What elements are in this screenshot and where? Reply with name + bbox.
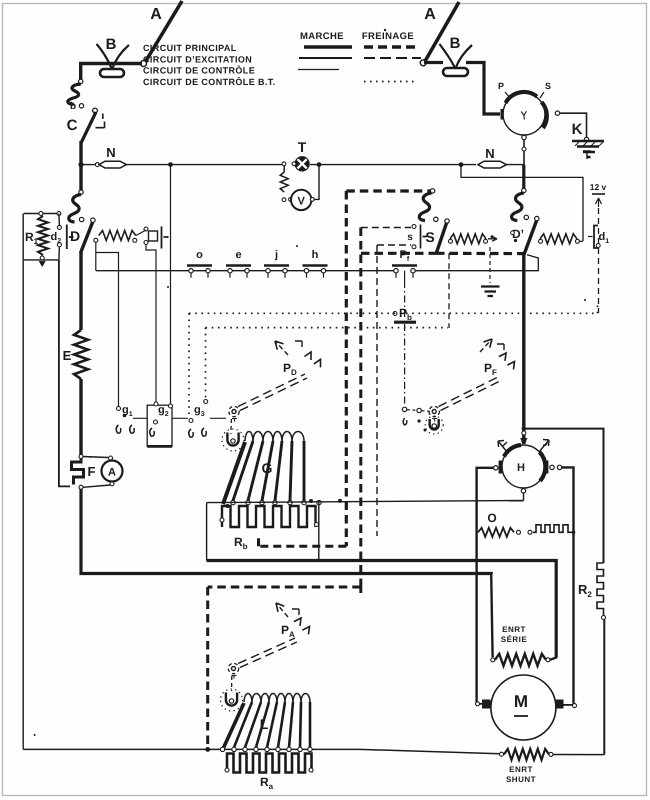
wire R2 down	[603, 619, 605, 755]
node shunt right	[549, 752, 553, 756]
node PF left a	[417, 408, 421, 412]
switch C pivot	[93, 108, 98, 113]
brake dashed feed top	[346, 189, 431, 192]
node F top	[79, 455, 83, 459]
fuse N right	[478, 161, 507, 168]
hook g1b	[130, 425, 134, 433]
earth stem	[489, 247, 491, 283]
arm PF	[439, 376, 503, 411]
wire M left stub	[477, 703, 482, 705]
svg-text:h: h	[312, 249, 319, 261]
node shunt left	[500, 752, 504, 756]
contact d2 circles	[57, 225, 61, 246]
node g3 top	[189, 419, 193, 423]
node M right	[573, 704, 577, 708]
bus D' down	[522, 253, 525, 444]
svg-text:FREINAGE: FREINAGE	[362, 31, 414, 42]
label S top	[545, 81, 551, 91]
svg-text:Ra: Ra	[260, 775, 274, 791]
node K top	[584, 137, 588, 141]
wire zigzag to d1m	[136, 230, 146, 236]
wire N row right	[507, 164, 525, 166]
arrow H right	[539, 440, 549, 453]
excitation dashed s-bot	[377, 244, 411, 246]
svg-text:L: L	[260, 716, 269, 732]
contact j	[264, 249, 289, 278]
wire B right to J	[466, 63, 500, 115]
excitation dashed s-top	[361, 227, 411, 229]
node g2 topright	[169, 404, 173, 408]
svg-text:g3: g3	[194, 404, 205, 418]
node G lead dot	[226, 504, 230, 508]
arrester B left horns	[97, 44, 130, 68]
node D res right	[133, 238, 137, 242]
label Pb	[399, 306, 412, 322]
wire A to B right	[424, 61, 443, 64]
dash link PF	[407, 410, 430, 412]
node S trip top	[430, 189, 434, 193]
label ENRT SHUNT	[506, 765, 536, 784]
label H	[517, 462, 525, 474]
label d1	[599, 231, 610, 245]
trip coil D	[69, 195, 81, 223]
dashdot Pf-Pb	[404, 281, 406, 317]
label A left	[150, 6, 162, 23]
node O mid b	[528, 530, 532, 534]
label D	[70, 228, 80, 244]
legend sample thick dashed	[364, 45, 417, 48]
node D' fixed b	[514, 239, 517, 242]
wire g1 feed	[96, 253, 119, 408]
link Pd wiper	[230, 419, 233, 434]
node serie right	[546, 658, 550, 662]
breaker J mark	[521, 111, 526, 119]
legend text CIRCUIT PRINCIPAL	[143, 43, 237, 53]
node Ra right	[309, 768, 313, 772]
label PF	[484, 361, 497, 377]
speck 1	[167, 286, 169, 288]
svg-text:ENRT: ENRT	[502, 625, 526, 634]
node F bottom	[79, 485, 83, 489]
legend sample dotted	[364, 81, 417, 83]
excitation dashed vertical x377	[376, 245, 378, 536]
label Pd	[283, 361, 297, 377]
resistor E	[74, 330, 88, 379]
legend sample thick solid	[304, 45, 352, 48]
legend sample medium dashed	[364, 57, 421, 59]
node junction A-B right	[420, 60, 426, 66]
resistor Rb comb	[222, 506, 316, 527]
machine H arcs	[504, 445, 545, 481]
wire Dres drop	[95, 243, 97, 271]
fuse N left	[99, 161, 127, 168]
node A top	[109, 456, 113, 460]
node R2 bottom	[602, 616, 606, 620]
arrow S res	[488, 235, 497, 241]
contact d2 wire top	[58, 214, 61, 227]
label d2	[51, 231, 62, 245]
node H right b	[557, 465, 561, 469]
control row wire	[96, 270, 394, 272]
node b1	[79, 79, 83, 83]
wiper G	[222, 429, 244, 451]
bt dotted horizontal 2	[206, 327, 449, 329]
switch D' pivot	[535, 216, 539, 220]
node g1 dot	[123, 414, 127, 418]
bus to D	[79, 165, 82, 191]
label g1	[122, 404, 133, 418]
brake dashed PA box top	[208, 587, 361, 593]
brake dashed PA box left	[206, 587, 209, 749]
svg-text:MARCHE: MARCHE	[300, 31, 344, 42]
node bus above H a	[522, 431, 526, 435]
wire serie left feed	[491, 574, 492, 657]
resistor R1 zigzag	[38, 216, 48, 255]
wiper PF	[425, 416, 443, 434]
label g2	[158, 404, 169, 418]
bt dotted horizontal 1	[189, 312, 598, 314]
machine H circle	[502, 445, 545, 488]
resistor S zigzag	[450, 234, 486, 244]
arrow H left	[498, 441, 508, 454]
label O	[487, 511, 496, 525]
wire H top feed	[520, 438, 528, 445]
wire H top right branch	[524, 429, 604, 563]
bus D to E	[79, 252, 82, 330]
node H left	[494, 466, 498, 470]
trip coil D' bus	[512, 193, 524, 221]
node V left b	[289, 198, 293, 202]
wire serie right feed	[550, 655, 556, 660]
svg-text:A: A	[108, 467, 116, 479]
winding ENRT SERIE	[495, 654, 546, 666]
svg-text:PF: PF	[484, 361, 497, 377]
hook Pb bottom	[403, 418, 407, 425]
svg-text:o: o	[196, 249, 203, 261]
label B left	[106, 36, 117, 53]
svg-text:SHUNT: SHUNT	[506, 775, 536, 784]
svg-text:E: E	[63, 348, 72, 363]
chevrons PA	[292, 609, 310, 634]
legend header FREINAGE	[362, 31, 414, 42]
resistor Ra comb	[227, 754, 312, 773]
wiper L	[221, 689, 243, 711]
node bus above H b	[522, 439, 526, 443]
svg-text:PD: PD	[283, 361, 297, 377]
svg-text:Pf: Pf	[400, 249, 410, 263]
arrow Pd	[275, 341, 288, 355]
legend sample medium solid	[299, 57, 352, 59]
chevrons PF	[497, 344, 515, 369]
bus E to F	[79, 379, 82, 455]
svg-text:C: C	[67, 117, 78, 134]
label F	[88, 464, 96, 479]
bt dotted right end corner	[597, 304, 599, 313]
label C	[67, 117, 78, 134]
wire J to K	[560, 113, 587, 138]
brake dashed Rb link	[259, 534, 347, 546]
svg-text:N: N	[106, 145, 115, 160]
node PF dot	[424, 429, 427, 432]
tick S	[540, 92, 544, 98]
control dashed vertical x449	[448, 253, 450, 328]
switch C blade	[82, 112, 97, 142]
speck 3	[34, 734, 36, 736]
pantograph A left	[144, 1, 182, 64]
svg-text:A: A	[150, 6, 162, 23]
node S res right	[484, 239, 488, 243]
svg-text:K: K	[572, 121, 583, 138]
ground K	[572, 141, 604, 157]
link PA wiper	[231, 676, 233, 691]
node T left b	[292, 162, 296, 166]
node b2	[79, 104, 83, 108]
label N right	[485, 146, 494, 161]
node g2 mid	[154, 420, 158, 424]
node N junction left-branch	[168, 162, 173, 167]
arrester B right horns	[440, 44, 473, 67]
contact d1m circles	[144, 227, 148, 245]
legend text CIRCUIT DE CONTROLE	[143, 65, 255, 76]
box G right	[318, 503, 320, 561]
contact o	[187, 249, 212, 278]
tick P	[505, 92, 510, 98]
node junction A-B left	[141, 61, 147, 67]
resistor R1 box bottom	[24, 259, 59, 261]
arrester B left box	[100, 69, 124, 77]
wire g3 feed	[170, 165, 172, 405]
node S res left	[449, 239, 453, 243]
switch S pivot	[445, 219, 449, 223]
machine H right brush	[545, 461, 549, 474]
wire V right up	[314, 166, 319, 199]
svg-text:P: P	[498, 81, 504, 91]
svg-text:Rb: Rb	[234, 535, 248, 551]
node M left	[476, 702, 480, 706]
tick g2-g3	[172, 417, 188, 419]
label 12v	[590, 182, 607, 192]
hook g3b	[202, 428, 206, 436]
svg-text:d1: d1	[599, 231, 610, 245]
node J right	[555, 111, 559, 115]
speck 4	[89, 456, 91, 458]
bt dotted corner 1	[188, 313, 190, 418]
contact d1 circles	[596, 244, 600, 248]
wire H bottom stem	[523, 493, 525, 501]
bus J down	[522, 165, 525, 190]
label N left	[106, 145, 115, 160]
svg-text:CIRCUIT DE CONTRÔLE B.T.: CIRCUIT DE CONTRÔLE B.T.	[143, 76, 276, 87]
node G row dot2	[338, 499, 342, 503]
coil L	[222, 694, 312, 752]
svg-text:V: V	[298, 195, 306, 207]
label E	[63, 348, 72, 363]
svg-text:F: F	[88, 464, 96, 479]
contact d2 wire bottom	[58, 247, 61, 260]
label R1	[25, 230, 39, 246]
trip coil S	[419, 193, 431, 221]
wire d2 to F	[59, 260, 70, 487]
chevrons Pd	[295, 341, 321, 367]
label Rb	[234, 535, 248, 551]
contact s bar	[421, 225, 428, 249]
wire M right stub	[564, 704, 574, 706]
svg-text:12 v: 12 v	[590, 182, 607, 192]
node PA box bottom	[205, 747, 210, 752]
resistor O zigzag	[478, 528, 514, 537]
contact e	[226, 249, 251, 278]
node PF left b	[418, 419, 421, 422]
svg-text:g2: g2	[158, 404, 169, 418]
svg-text:PA: PA	[281, 623, 295, 639]
brake dashed vertical x346	[345, 191, 348, 546]
motor M left brush	[482, 700, 491, 709]
node L lead	[220, 747, 224, 751]
node N junction right	[459, 162, 464, 167]
node D' res right	[575, 239, 583, 243]
arrester B right box	[443, 68, 468, 76]
legend text CIRCUIT D'EXCITATION	[143, 55, 252, 65]
label M	[514, 692, 528, 716]
breaker J arcs	[506, 92, 547, 128]
trip coil b left	[68, 84, 81, 104]
contact Pf	[392, 249, 417, 278]
svg-text:CIRCUIT DE CONTRÔLE: CIRCUIT DE CONTRÔLE	[143, 65, 255, 76]
node J bottom	[522, 135, 526, 139]
svg-text:CIRCUIT D’EXCITATION: CIRCUIT D’EXCITATION	[143, 55, 252, 65]
node V right	[310, 198, 314, 202]
svg-text:H: H	[517, 462, 525, 474]
dashdot Pb down	[404, 324, 406, 406]
speck 5	[584, 299, 586, 301]
label P	[498, 81, 504, 91]
svg-text:s: s	[407, 232, 413, 243]
node T left a	[282, 162, 286, 166]
node A bottom	[110, 482, 114, 486]
label A right	[424, 6, 436, 23]
resistor D' zigzag	[540, 234, 577, 244]
wire N row middle	[127, 164, 285, 166]
label K	[572, 121, 583, 138]
resistor R1 box top	[24, 213, 59, 215]
node R1 top	[39, 212, 43, 216]
node D trip top	[79, 190, 83, 194]
resistor O cren	[533, 525, 572, 533]
svg-text:SÉRIE: SÉRIE	[501, 634, 528, 644]
arrow R1 bottom	[39, 261, 46, 267]
node O mid a	[517, 530, 521, 534]
svg-text:A: A	[424, 6, 436, 23]
arrow PA	[276, 603, 288, 617]
bottom wire left	[23, 749, 500, 753]
legend sample thin solid	[298, 69, 339, 71]
node Ra left	[225, 768, 229, 772]
breaker J circle	[503, 93, 545, 135]
svg-text:ENRT: ENRT	[509, 765, 533, 774]
wire C to N row	[79, 141, 82, 166]
resistor D zigzag	[99, 231, 136, 241]
svg-text:T: T	[298, 139, 307, 155]
svg-text:D: D	[70, 228, 80, 244]
contact s circles	[412, 225, 416, 249]
legend text CIRCUIT DE CONTROLE B.T.	[143, 76, 276, 87]
node Pb bottom	[402, 407, 406, 411]
hook g2a	[150, 428, 154, 436]
node H top junction	[522, 426, 526, 430]
motor M circle	[491, 675, 556, 740]
arrow PF	[480, 339, 492, 352]
motor M right brush	[555, 700, 564, 709]
box G left	[206, 503, 208, 561]
wire N to d1 rect	[461, 165, 583, 241]
svg-text:d2: d2	[51, 231, 62, 245]
svg-text:B: B	[106, 36, 117, 53]
node H right a	[550, 465, 554, 469]
tick g1-g2	[133, 417, 147, 419]
resistor R2	[597, 563, 604, 617]
tick g3 right	[210, 417, 226, 419]
node V left a	[282, 198, 286, 202]
node G row dot1	[309, 499, 313, 503]
control row wire right	[415, 255, 538, 271]
node N-left terminal	[95, 163, 99, 167]
contact d1m bar	[162, 227, 169, 249]
label Ra	[260, 775, 274, 791]
pivot PA	[228, 663, 238, 678]
winding ENRT SHUNT	[504, 749, 549, 760]
speck 2	[384, 29, 386, 31]
node Pb	[393, 312, 397, 316]
12v dash line	[598, 208, 600, 313]
legend header MARCHE	[300, 31, 344, 42]
pantograph A right	[424, 2, 459, 63]
bottom thick G line	[207, 561, 557, 658]
node serie left	[491, 658, 495, 662]
label s	[407, 232, 413, 243]
wire T left drop	[280, 166, 288, 192]
speck 6	[296, 245, 298, 247]
switch D' blade	[524, 221, 537, 255]
svg-text:O: O	[487, 511, 496, 525]
12v bar	[592, 193, 605, 195]
node Rb right	[315, 523, 319, 527]
contact h	[303, 249, 328, 278]
wire bus corner left	[79, 62, 82, 80]
contact d1 bar	[594, 226, 598, 249]
earth ground	[481, 287, 500, 297]
svg-text:M: M	[514, 692, 528, 711]
breaker J left brush	[501, 109, 504, 120]
wire A bottom to F	[83, 485, 110, 487]
label R2	[578, 582, 592, 599]
breaker J right brush	[545, 109, 548, 120]
pivot Pd	[229, 406, 239, 421]
node g2 top	[154, 402, 158, 406]
wire to d1	[588, 236, 593, 238]
switch D blade	[81, 222, 93, 253]
shunt F	[72, 459, 84, 485]
node bus-N junction	[78, 162, 83, 167]
arm PA	[238, 638, 297, 668]
wire N row left	[81, 164, 98, 166]
pivot PF	[429, 406, 439, 421]
node g3 topright	[204, 400, 208, 404]
svg-text:e: e	[235, 249, 241, 261]
switch D pivot	[91, 218, 95, 222]
machine H left brush	[499, 461, 503, 474]
hook g3a	[189, 429, 193, 437]
node R1 topright	[57, 212, 61, 216]
